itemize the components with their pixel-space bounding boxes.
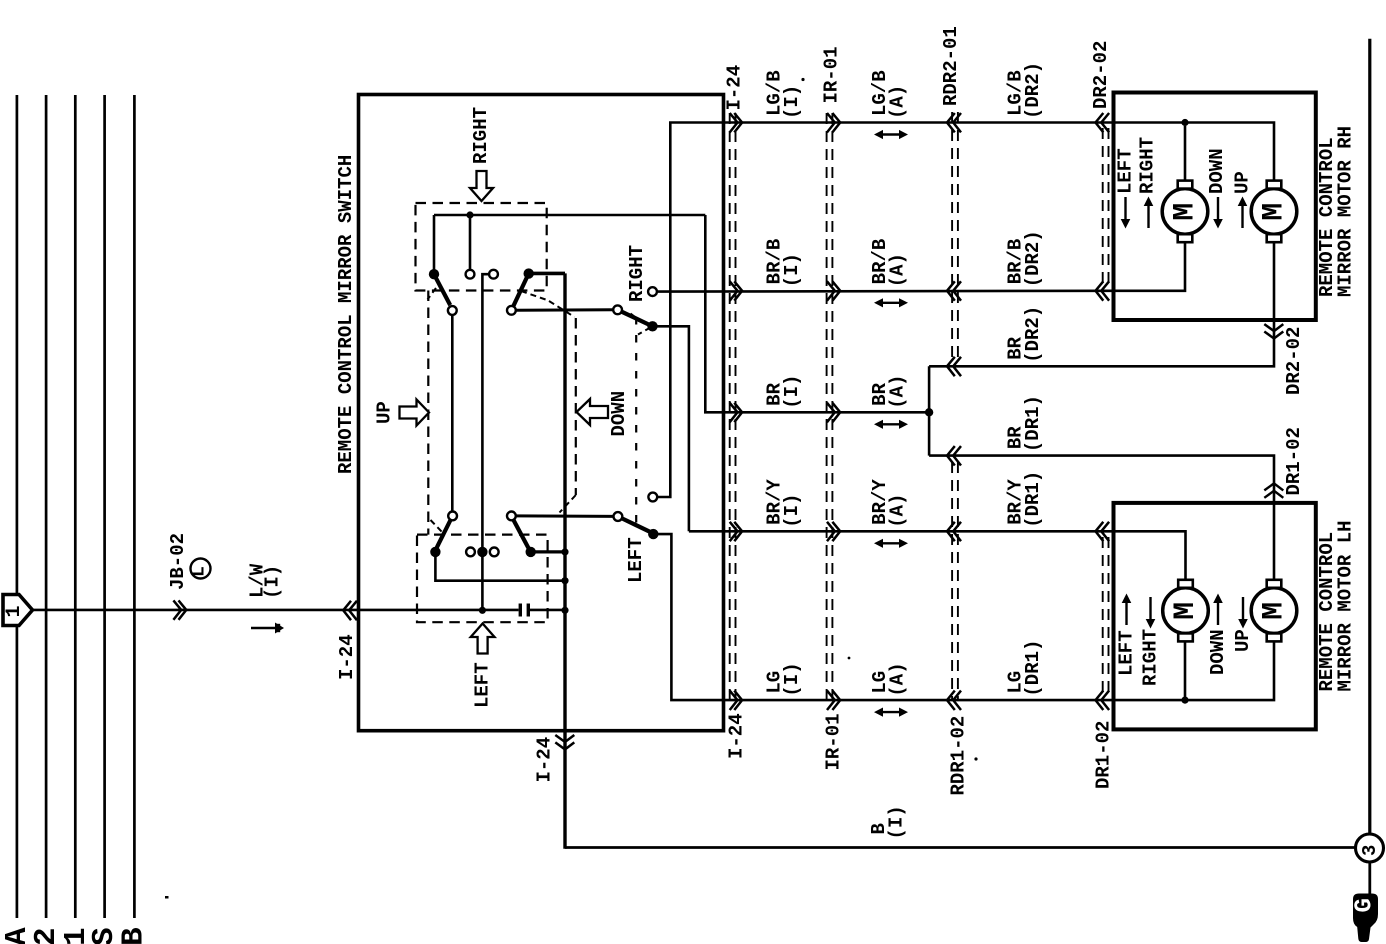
svg-text:(DR2): (DR2) [1022,230,1044,287]
contact open upper mid-left [466,270,475,279]
exchange arrow BR/Y [879,542,903,544]
svg-text:M: M [1258,203,1292,221]
svg-text:MIRROR MOTOR LH: MIRROR MOTOR LH [1335,520,1357,691]
svg-text:LEFT: LEFT [472,662,494,708]
contact blade pivot upper-left [429,269,439,279]
dashed link upper-left [428,288,437,300]
wire M1 LH bottom [1184,640,1187,700]
svg-text:(A): (A) [887,662,909,696]
contact open BR/B fixed [648,287,657,296]
box remote control mirror motor RH [1114,93,1316,321]
svg-text:LEFT: LEFT [1116,630,1138,676]
wire B ground [565,846,1356,849]
junction dot LG at motor [1181,697,1188,704]
junction dot center feed [479,607,486,614]
svg-text:DR1-02: DR1-02 [1092,721,1114,789]
svg-text:L: L [190,566,210,577]
arrow LEFT LH [1125,601,1127,625]
connector DR2-02 dashed line [1102,128,1104,285]
svg-text:(A): (A) [887,375,909,409]
exchange arrow LG/B [879,133,903,135]
svg-text:UP: UP [374,401,396,424]
dashed link to right rail [549,301,575,317]
junction dot rocker rail [466,211,473,218]
dashed link lower-right rail [560,495,576,513]
junction dot common feed [561,607,568,614]
chevrons IR-01 BR/B [827,281,835,300]
current direction arrow [251,627,277,630]
chevrons IR-01 LG [827,691,835,710]
junction dot BR split [925,408,933,416]
bus wire 1 [16,95,19,918]
speck 2 [801,78,804,81]
svg-text:MIRROR MOTOR RH: MIRROR MOTOR RH [1335,126,1357,297]
contact open upper-right blade end [507,306,516,315]
svg-text:LEFT: LEFT [625,537,647,583]
switch blade selector left [622,519,651,533]
wire BR/B [657,241,1185,292]
wire switch common vertical [563,273,566,848]
chevrons IR-01 BR/Y [827,522,835,541]
box remote control mirror switch [359,95,724,731]
svg-text:(I): (I) [885,805,907,839]
chevrons DR1-02 vertical [1264,483,1283,490]
junction dot lower-left out [561,577,568,584]
svg-text:(I): (I) [781,662,803,696]
svg-text:I-24: I-24 [726,713,748,759]
dashed rocker housing lower [417,535,548,623]
bus wire 4 [103,95,106,918]
arrow RIGHT LH [1149,597,1151,621]
arrow UP right [400,400,430,426]
svg-text:(DR2): (DR2) [1022,306,1044,363]
wire selector right out [653,326,689,531]
svg-text:RDR2-01: RDR2-01 [940,26,962,106]
arrow RIGHT down [470,171,493,201]
svg-text:RIGHT: RIGHT [626,245,648,302]
dashed selector link [635,317,637,525]
svg-text:REMOTE CONTROL MIRROR SWITCH: REMOTE CONTROL MIRROR SWITCH [335,155,357,474]
contact open selector left pivot [614,512,623,521]
switch blade lower-left [436,520,450,548]
connector I-24 entry chevrons [343,601,351,620]
wire lower-left blade out [435,552,565,581]
svg-text:(I): (I) [262,565,284,599]
svg-text:DR2-02: DR2-02 [1283,327,1305,395]
switch blade upper-left [435,276,450,305]
chevrons IR-01 BR [827,403,835,422]
node circle 3 [1356,834,1384,862]
connector IR-01 dashed line [826,113,828,701]
contact open lower-right pivot already drawn [507,512,516,521]
svg-text:DOWN: DOWN [1207,629,1229,675]
chevrons RDR LG/B [947,113,955,132]
wire center contact vertical [482,274,489,610]
chevrons I-24 BR/B [730,281,738,300]
arrow DOWN LH [1217,601,1219,625]
svg-text:(I): (I) [781,85,803,119]
chevrons RDR BR-DR1 [947,446,955,465]
contact blade end selector left [648,529,658,539]
contact open center-right [490,548,499,557]
arrow RIGHT RH [1147,204,1149,228]
dashed selector blade right [638,328,651,335]
chevrons I-24 BR [730,403,738,422]
wire upper-right blade out [529,272,565,276]
wire LG/B to motor M2 RH [1185,123,1274,184]
junction dot LG/B at motor [1181,119,1188,126]
svg-text:I-24: I-24 [534,737,556,783]
arrow UP LH [1242,597,1244,621]
svg-text:M: M [1258,602,1292,620]
svg-text:(I): (I) [781,494,803,528]
svg-text:RDR1-02: RDR1-02 [948,716,970,796]
svg-text:(A): (A) [887,494,909,528]
chevrons IR-01 LG/B [827,113,835,132]
wire M1 RH top [1184,126,1187,184]
svg-text:B: B [117,927,152,944]
svg-text:DOWN: DOWN [1206,148,1228,194]
speck 1 [165,896,169,899]
wire feed to capacitor [482,609,518,612]
dashed rocker rail left [427,291,429,535]
exchange arrow BR/B [879,302,903,304]
contact open lower-left pivot [448,512,457,521]
svg-text:(A): (A) [887,253,909,287]
svg-text:(A): (A) [887,85,909,119]
svg-text:IR-01: IR-01 [821,46,843,103]
contact pivot line lower [516,514,614,518]
contact blade pivot upper-right [524,268,534,278]
contact open selector right pivot [613,305,622,314]
chevrons RDR BR/B [947,281,955,300]
connector DR1-02 dashed line [1102,537,1104,694]
connector I-24 exit chevrons [555,735,574,742]
wire ground bus [1368,39,1371,834]
dashed rocker housing upper [416,203,547,291]
wire stub to contact [469,215,472,269]
svg-text:1: 1 [3,605,26,617]
svg-text:LEFT: LEFT [1115,148,1137,194]
speck 3 [848,657,851,660]
dashed selector link top [631,314,640,321]
wire selector left out to LG [653,534,1185,700]
ground G [1353,894,1378,943]
arrow UP RH [1241,204,1243,228]
svg-text:(I): (I) [781,375,803,409]
svg-text:RIGHT: RIGHT [1137,137,1159,194]
exchange arrow BR [879,423,903,425]
bus wire 3 [74,95,77,918]
arrow LEFT RH [1124,197,1126,221]
wire lower-right blade out [531,550,565,553]
contact open upper-left blade end [448,306,457,315]
motor M1 RH [1162,189,1208,235]
svg-text:(DR1): (DR1) [1022,395,1044,452]
svg-text:(DR1): (DR1) [1022,640,1044,697]
arrow LEFT up [471,624,495,654]
wire BR (DR2) [929,241,1274,366]
wire BR (DR1) [929,456,1274,582]
contact center common [477,547,487,557]
connector A pin 1 flag [3,595,33,626]
wire blade link vertical [451,315,454,512]
svg-text:3: 3 [1359,845,1381,856]
svg-text:JB-02: JB-02 [167,533,189,590]
wire BR split vertical [928,366,931,455]
switch blade lower-right [514,520,529,549]
bus wire 2 [45,95,48,918]
svg-text:M: M [1169,203,1203,221]
connector JB-02 chevrons [173,600,181,619]
svg-text:I-24: I-24 [723,65,745,111]
dashed link lower-left [431,520,443,532]
contact open center-left [466,548,475,557]
motor M2 LH [1251,588,1297,634]
exchange arrow LG [879,711,903,713]
connector I-24 dashed line [729,113,731,701]
junction dot lower-right out [561,548,568,555]
wire rocker top rail [434,214,705,217]
svg-text:RIGHT: RIGHT [1140,629,1162,686]
box remote control mirror motor LH [1114,503,1316,730]
contact open upper mid-right [489,270,498,279]
chevrons DR2-02 vertical [1264,324,1283,331]
svg-text:RIGHT: RIGHT [470,107,492,164]
chevrons I-24 LG [730,691,738,710]
contact blade end lower-left [430,547,440,557]
wire capacitor to common [530,609,565,612]
svg-text:UP: UP [1232,171,1254,194]
motor M2 RH [1251,189,1297,235]
wire BR from rail [705,215,929,412]
chevrons I-24 LG/B [730,113,738,132]
wire LG/B [657,123,1185,498]
svg-text:(DR2): (DR2) [1022,62,1044,119]
dashed rocker rail right [575,318,577,495]
svg-text:G: G [1351,898,1378,912]
dashed selector blade left [639,527,652,534]
dashed link upper-right [521,291,547,300]
chevrons RDR LG [947,691,955,710]
contact pivot line upper [516,308,613,311]
chevrons DR LG [1096,691,1104,710]
svg-text:M: M [1169,602,1203,620]
bus wire 5 [133,95,136,918]
svg-text:(I): (I) [781,253,803,287]
chevrons DR BR/B [1096,281,1104,300]
chevrons RDR BR-DR2 [947,357,955,376]
svg-text:DR1-02: DR1-02 [1283,427,1305,495]
chevrons I-24 BR/Y [730,522,738,541]
arrow DOWN RH [1217,197,1219,221]
wire LG to motor M2 LH [1185,640,1274,700]
contact blade end lower-right [526,547,536,557]
wire circle3 to ground [1368,862,1371,894]
wire BR/Y [689,531,1186,588]
contact blade end selector right [647,321,657,331]
arrow DOWN left [577,399,609,425]
svg-text:DOWN: DOWN [608,391,630,437]
chevrons DR LG/B [1096,113,1104,132]
chevrons RDR BR/Y [947,522,955,541]
switch blade upper-right [513,276,527,306]
svg-text:(DR1): (DR1) [1022,471,1044,528]
contact open LG/B fixed [648,493,657,502]
wire L/W feed [31,609,482,612]
connector RDR2-01/RDR1-02 dashed line [951,112,953,360]
wire rail corner to blade [433,215,436,270]
speck 4 [974,757,977,760]
chevrons DR BR/Y [1096,522,1104,541]
svg-text:DR2-02: DR2-02 [1090,41,1112,109]
motor M1 LH [1163,588,1209,634]
svg-text:UP: UP [1232,629,1254,652]
capacitor C1 [519,604,522,617]
svg-text:I-24: I-24 [336,634,358,680]
switch blade selector right [622,312,650,325]
svg-text:IR-01: IR-01 [822,713,844,770]
junction block circle L [191,559,211,579]
